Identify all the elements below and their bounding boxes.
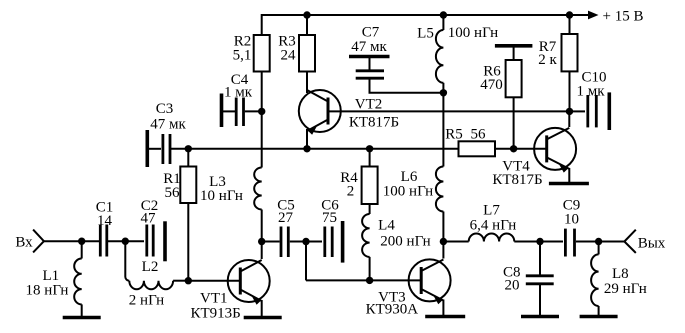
resistor R4 xyxy=(340,149,377,204)
node R1/L2/VT1 base xyxy=(185,277,192,284)
resistor R2 xyxy=(233,34,270,72)
capacitor C2 xyxy=(125,198,165,261)
wire VT3 base line xyxy=(306,279,421,281)
capacitor C1 xyxy=(96,200,126,257)
wire node to C1 xyxy=(82,240,99,242)
svg-text:100 нГн: 100 нГн xyxy=(448,25,498,41)
wire R2 bottom to C4 node xyxy=(261,72,263,112)
capacitor C10 xyxy=(570,70,610,131)
svg-text:C3: C3 xyxy=(156,101,174,117)
node L4 bottom xyxy=(366,277,373,284)
inductor L6 xyxy=(383,167,444,242)
svg-text:L4: L4 xyxy=(378,218,395,234)
inductor L4 xyxy=(362,214,431,280)
svg-text:75: 75 xyxy=(322,210,337,226)
input terminal Вх xyxy=(15,230,44,253)
inductor L5 xyxy=(417,15,498,93)
svg-text:КТ913Б: КТ913Б xyxy=(190,306,240,322)
svg-text:10: 10 xyxy=(564,212,579,228)
svg-text:5,1: 5,1 xyxy=(233,48,252,64)
wire R3 bottom to VT2 collector xyxy=(306,72,308,94)
inductor L1 xyxy=(26,241,82,316)
wire node to VT4 base xyxy=(514,148,547,150)
node R5/R6/VT4 base xyxy=(510,145,517,152)
svg-text:47 мк: 47 мк xyxy=(351,39,387,55)
svg-text:Вх: Вх xyxy=(15,235,33,251)
svg-text:КТ930А: КТ930А xyxy=(366,302,419,318)
inductor L2 xyxy=(125,241,188,308)
transistor VT4 KT817B xyxy=(492,128,576,188)
svg-text:L8: L8 xyxy=(612,266,629,282)
node C1/C2/L2 xyxy=(122,238,129,245)
svg-text:6,4 нГн: 6,4 нГн xyxy=(470,218,517,234)
wire R1 bottom to VT1 base node xyxy=(187,203,189,281)
ground L1 xyxy=(63,316,101,320)
svg-text:27: 27 xyxy=(278,210,294,226)
ground VT3 xyxy=(425,315,465,319)
inductor L7 xyxy=(443,203,540,242)
wire VT2 emitter down xyxy=(306,129,308,149)
transistor VT3 KT930A xyxy=(366,259,451,317)
node C4/R2 xyxy=(258,108,265,115)
svg-text:КТ817Б: КТ817Б xyxy=(492,172,542,188)
node R7 top xyxy=(566,11,573,18)
output terminal Вых xyxy=(624,230,665,253)
svg-text:VT2: VT2 xyxy=(355,97,383,113)
svg-text:18 нГн: 18 нГн xyxy=(26,283,69,299)
svg-text:47: 47 xyxy=(141,211,157,227)
svg-text:R5: R5 xyxy=(445,127,463,143)
node R7/C10/VT4 collector xyxy=(566,108,573,115)
wire VT3 collector xyxy=(442,242,444,259)
svg-text:470: 470 xyxy=(480,77,503,93)
wire VT2 base to right xyxy=(328,110,570,112)
ground VT1 xyxy=(244,316,282,320)
capacitor C8 xyxy=(503,242,554,316)
node C8 xyxy=(536,238,543,245)
svg-text:2 нГн: 2 нГн xyxy=(129,293,164,309)
wire VT3 emitter xyxy=(442,300,444,316)
wire to output xyxy=(599,241,625,243)
node R4 top xyxy=(366,145,373,152)
arrow +15V xyxy=(588,11,599,20)
svg-text:2: 2 xyxy=(347,184,355,200)
wire R2 node down through to L3 xyxy=(261,111,263,167)
ground L8 xyxy=(580,315,618,319)
svg-text:КТ817Б: КТ817Б xyxy=(349,115,399,131)
capacitor C5 xyxy=(262,198,306,258)
resistor R5 xyxy=(445,127,513,157)
node L1 xyxy=(78,238,85,245)
svg-text:+ 15 В: + 15 В xyxy=(603,8,644,24)
inductor L8 xyxy=(591,242,647,316)
wire input to L1 node xyxy=(44,240,82,242)
svg-text:1 мк: 1 мк xyxy=(576,84,605,100)
wire L3 bottom to VT1 collector node xyxy=(261,210,263,242)
capacitor C6 xyxy=(306,198,343,263)
node L5/C7 xyxy=(440,89,447,96)
wire top rail +15V xyxy=(262,14,589,16)
node C5/C6 xyxy=(302,238,309,245)
ground VT4 xyxy=(549,182,589,186)
transistor VT2 KT817B xyxy=(299,90,399,135)
svg-text:L5: L5 xyxy=(417,26,434,42)
wire 149 line from R1 node to R5 xyxy=(188,148,458,150)
wire VT1 emitter xyxy=(261,300,263,317)
svg-text:56: 56 xyxy=(471,127,487,143)
ground C8 xyxy=(521,315,559,319)
svg-text:L7: L7 xyxy=(483,203,500,219)
capacitor C4 xyxy=(222,72,262,127)
resistor R3 xyxy=(278,34,315,72)
node VT1 collector / C5 xyxy=(258,238,265,245)
svg-text:VT1: VT1 xyxy=(200,291,228,307)
svg-text:100 нГн: 100 нГн xyxy=(383,184,433,200)
node L8 xyxy=(595,238,602,245)
svg-text:24: 24 xyxy=(281,48,297,64)
svg-text:20: 20 xyxy=(505,278,520,294)
resistor R1 xyxy=(163,149,196,203)
svg-text:200 нГн: 200 нГн xyxy=(380,234,430,250)
node VT2 emitter on 149 line xyxy=(303,145,310,152)
svg-text:2 к: 2 к xyxy=(538,52,557,68)
svg-text:Вых: Вых xyxy=(638,236,666,252)
wire R2 top xyxy=(261,14,263,35)
svg-text:56: 56 xyxy=(165,185,181,201)
node R3 top xyxy=(303,11,310,18)
resistor R7 xyxy=(538,15,577,111)
wire VT1 collector xyxy=(261,242,263,260)
svg-text:47 мк: 47 мк xyxy=(150,117,186,133)
node L5 top xyxy=(440,11,447,18)
svg-text:1 мк: 1 мк xyxy=(224,85,253,101)
capacitor C9 xyxy=(540,198,599,257)
inductor L3 xyxy=(200,168,262,210)
capacitor C7 xyxy=(349,25,443,93)
node C3/R1 xyxy=(185,145,192,152)
wire R3 top xyxy=(306,15,308,35)
svg-text:14: 14 xyxy=(97,213,113,229)
svg-text:29 нГн: 29 нГн xyxy=(604,281,647,297)
capacitor C3 xyxy=(147,101,188,167)
wire L5 node down to L6 xyxy=(442,93,444,167)
resistor R6 xyxy=(480,46,532,149)
wire R4 bottom to L4 xyxy=(369,204,371,214)
svg-text:10 нГн: 10 нГн xyxy=(200,188,243,204)
wire VT4 emitter xyxy=(568,168,570,182)
transistor VT1 KT913B xyxy=(188,260,269,322)
wire C5 node down to VT3 base line xyxy=(305,242,307,281)
node VT3 collector / L7 xyxy=(440,238,447,245)
svg-text:L2: L2 xyxy=(142,259,159,275)
wire VT4 collector xyxy=(568,111,570,127)
